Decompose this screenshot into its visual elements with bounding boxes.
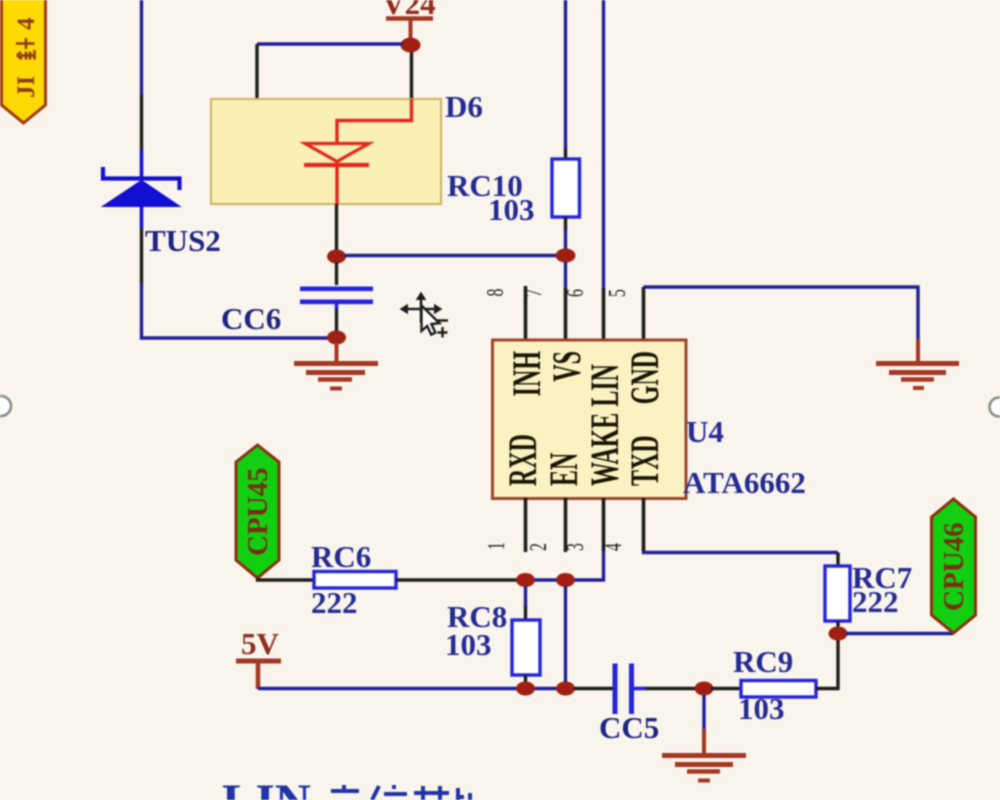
pin: D6 bottom lead (black) <box>335 204 338 250</box>
pin 2 of U4 <box>564 498 568 552</box>
hanzi 信 top strokes <box>372 785 407 800</box>
capacitor CC6 <box>300 262 373 332</box>
svg-text:ATA6662: ATA6662 <box>683 465 806 500</box>
pin: D6 left lead (black) <box>255 44 258 100</box>
ground below CC6 <box>294 342 378 389</box>
wire: pin1 junction to pin2 junction <box>534 578 558 581</box>
svg-text:4: 4 <box>13 17 40 30</box>
svg-text:LIN: LIN <box>584 364 628 407</box>
svg-text:103: 103 <box>488 192 535 227</box>
node: junction RC8 bottom <box>516 682 535 696</box>
pin: RC7 top stub <box>836 553 839 567</box>
svg-text:2: 2 <box>526 543 552 551</box>
resistor RC9 <box>741 681 816 698</box>
wire: RC9 to RC7 column <box>816 640 838 689</box>
svg-text:INH: INH <box>506 351 550 397</box>
wire: pin1 junction down to RC8 <box>524 586 527 608</box>
svg-text:8: 8 <box>483 289 509 297</box>
svg-text:RC6: RC6 <box>311 539 371 574</box>
svg-text:CC6: CC6 <box>221 301 281 336</box>
wire: junction below D6 to RC10 column <box>344 254 566 257</box>
resistor RC6 <box>314 572 396 589</box>
svg-text:D6: D6 <box>445 89 483 124</box>
port CPU45 <box>236 445 279 578</box>
pin 3 of U4 <box>602 498 606 551</box>
power 5V <box>236 626 281 689</box>
svg-text:RC9: RC9 <box>733 644 793 679</box>
hanzi 片 top strokes <box>458 788 470 800</box>
svg-text:CC5: CC5 <box>599 710 659 745</box>
node: junction at bottom ground <box>695 682 714 696</box>
pin: TVS bottom pin (black) <box>140 228 143 283</box>
svg-text:1: 1 <box>484 542 510 550</box>
svg-text:6: 6 <box>563 289 589 297</box>
IC U4 body (ATA6662) <box>493 340 687 499</box>
wire: RC6 to pin1 junction <box>396 578 518 581</box>
wire: junction down to ground <box>702 695 705 729</box>
svg-text:GND: GND <box>624 351 668 404</box>
wire: junction to CC5 left plate <box>574 687 613 690</box>
port JI针4 <box>2 0 46 123</box>
wire: pin2 column down to 5V rail <box>564 586 567 683</box>
svg-text:7: 7 <box>521 289 547 297</box>
svg-text:WAKE: WAKE <box>584 413 628 486</box>
node: CC6 bottom junction <box>327 331 346 345</box>
svg-text:222: 222 <box>852 584 899 619</box>
power V24 <box>382 0 435 40</box>
svg-text:EN: EN <box>543 453 587 486</box>
wire: V24 junction to D6 left lead <box>257 42 402 45</box>
mouse cursor (move) <box>401 293 449 338</box>
pin: RC10 top stub <box>564 148 567 159</box>
component body D6 (yellow box) <box>211 99 441 204</box>
node: junction pin1 row <box>516 573 535 587</box>
node: junction below D6 <box>327 250 346 264</box>
pin: D6 right lead (black) <box>410 52 413 100</box>
svg-text:5: 5 <box>605 289 631 297</box>
svg-text:JI: JI <box>13 76 40 98</box>
wire: TVS bottom to CC6 junction <box>142 283 337 338</box>
wire: 5V rail to CC5 <box>258 687 560 690</box>
pin 7 of U4 <box>564 288 568 340</box>
wire: CPU45 to RC6 <box>258 578 315 580</box>
handle circle right edge <box>990 398 1000 417</box>
wire: pin 4 to RC7 <box>644 551 839 553</box>
TVS diode TUS2 <box>103 150 180 228</box>
svg-text:RXD: RXD <box>502 434 546 486</box>
hanzi 通 top strokes <box>331 785 359 791</box>
pin 8 of U4 <box>524 286 528 340</box>
resistor RC8 <box>512 620 540 675</box>
node: junction RC7 bottom <box>829 627 848 641</box>
svg-text:CPU45: CPU45 <box>242 467 274 556</box>
pin: TVS top pin (black) <box>140 94 143 150</box>
resistor RC7 <box>825 566 850 621</box>
hanzi 芯 top strokes <box>414 786 449 800</box>
pin 5 of U4 <box>642 287 646 340</box>
pin 4 of U4 <box>642 498 646 551</box>
wire: RC10 bottom to junction <box>564 230 567 250</box>
wire: RC10 top vertical <box>564 0 567 148</box>
svg-text:103: 103 <box>738 691 785 726</box>
wire: junction to chip pin 7 <box>564 262 567 288</box>
wire: junction to RC9 <box>711 687 741 690</box>
svg-text:TUS2: TUS2 <box>145 223 221 258</box>
svg-text:103: 103 <box>445 627 492 662</box>
svg-text:5V: 5V <box>241 626 280 661</box>
pin 1 of U4 <box>524 498 528 552</box>
pin 6 of U4 <box>602 288 606 340</box>
node: junction pin2 column at 5V rail <box>556 682 575 696</box>
node: junction at RC10 bottom <box>556 249 576 263</box>
pin: RC8 bottom stub <box>524 675 527 684</box>
svg-text:TXD: TXD <box>624 435 668 486</box>
svg-text:LIN: LIN <box>222 773 311 800</box>
wire: pin 6 long vertical <box>602 0 605 288</box>
wire: TVS top vertical (blue) <box>140 0 143 94</box>
svg-text:4: 4 <box>601 543 627 551</box>
capacitor CC5 <box>613 664 646 715</box>
svg-text:CPU46: CPU46 <box>938 522 970 611</box>
wire: CC5 to ground junction <box>645 687 697 690</box>
resistor RC10 <box>552 159 580 217</box>
pin: RC7 bottom stub <box>836 621 839 628</box>
ground at right (pin 5) <box>876 339 959 388</box>
handle circle left edge <box>0 396 11 416</box>
wire: junction to CPU46 <box>846 632 953 635</box>
svg-text:3: 3 <box>563 543 589 551</box>
node: V24 junction dot <box>401 38 421 53</box>
wire: pin2 junction to pin 3 <box>574 551 604 580</box>
svg-text:222: 222 <box>311 585 358 620</box>
port CPU46 <box>932 499 976 633</box>
wire: pin 5 to right ground <box>644 287 919 339</box>
svg-text:U4: U4 <box>686 414 724 449</box>
node: junction pin2 row <box>556 573 575 587</box>
pin: RC10 bottom stub <box>564 217 567 230</box>
diode D6 (red symbol inside box) <box>304 99 412 204</box>
ground at bottom center <box>662 729 746 781</box>
pin: RC8 top stub <box>524 606 527 620</box>
